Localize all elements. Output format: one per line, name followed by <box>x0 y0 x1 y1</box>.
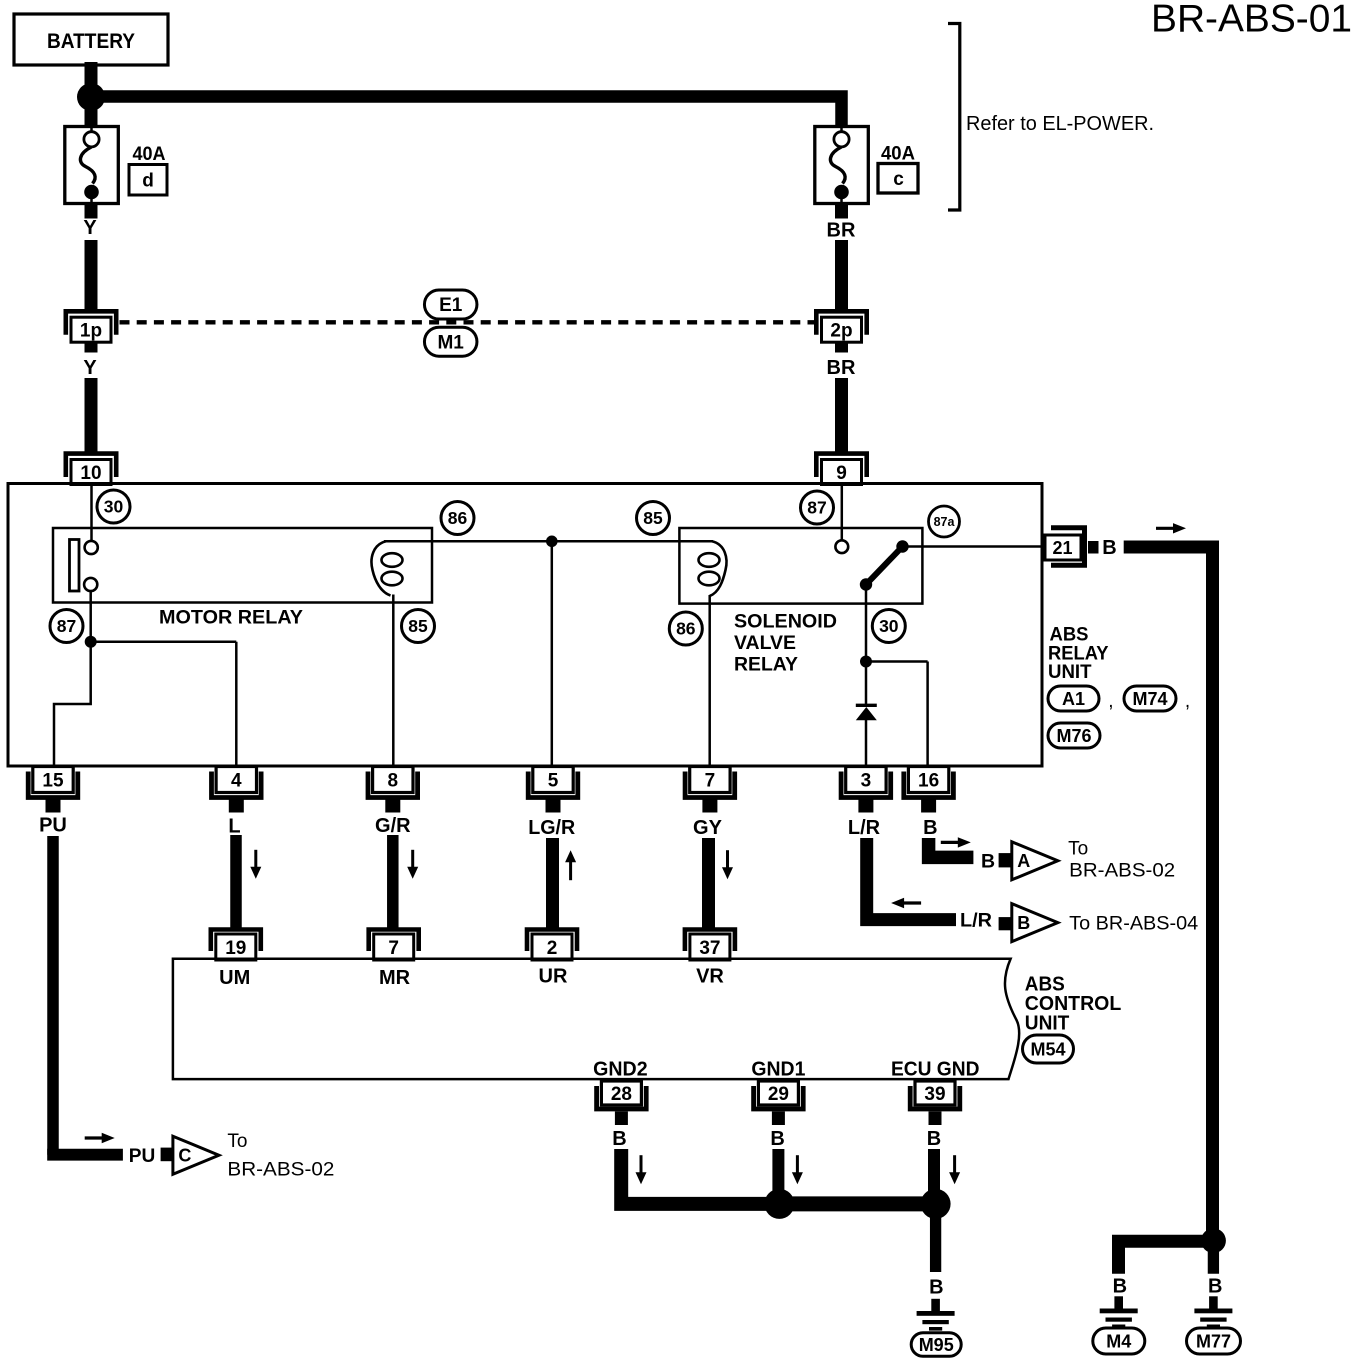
svg-text:,: , <box>1185 691 1190 712</box>
svg-text:To: To <box>1068 838 1088 859</box>
svg-text:30: 30 <box>879 616 899 636</box>
svg-text:Y: Y <box>83 357 97 379</box>
svg-text:B: B <box>612 1128 626 1150</box>
svg-text:10: 10 <box>80 463 101 484</box>
svg-text:3: 3 <box>861 771 872 792</box>
svg-text:BR: BR <box>827 220 856 242</box>
svg-text:7: 7 <box>388 938 399 959</box>
svg-text:BR-ABS-02: BR-ABS-02 <box>227 1159 334 1180</box>
svg-text:87: 87 <box>57 616 76 636</box>
svg-text:MR: MR <box>379 967 411 989</box>
svg-text:8: 8 <box>388 771 399 792</box>
svg-text:15: 15 <box>42 771 64 792</box>
svg-text:A: A <box>1017 851 1030 871</box>
svg-text:B: B <box>927 1128 941 1150</box>
svg-text:VALVE: VALVE <box>734 632 796 654</box>
svg-text:PU: PU <box>129 1145 156 1167</box>
svg-text:To: To <box>227 1131 247 1152</box>
svg-text:2: 2 <box>547 938 558 959</box>
svg-text:ECU GND: ECU GND <box>891 1058 980 1080</box>
svg-text:,: , <box>1108 691 1113 712</box>
svg-text:M74: M74 <box>1132 689 1167 709</box>
svg-text:21: 21 <box>1052 538 1072 558</box>
svg-text:BATTERY: BATTERY <box>47 29 135 53</box>
svg-text:UNIT: UNIT <box>1025 1013 1070 1035</box>
svg-text:B: B <box>1102 537 1116 559</box>
svg-text:GND1: GND1 <box>751 1058 805 1080</box>
svg-text:L/R: L/R <box>960 910 992 932</box>
svg-text:c: c <box>893 169 904 190</box>
svg-text:16: 16 <box>918 771 939 792</box>
svg-text:M76: M76 <box>1056 726 1091 746</box>
svg-text:87a: 87a <box>934 515 956 529</box>
svg-text:39: 39 <box>924 1084 945 1105</box>
svg-text:86: 86 <box>448 508 468 528</box>
svg-text:BR-ABS-01: BR-ABS-01 <box>1151 0 1352 41</box>
svg-text:B: B <box>929 1277 943 1299</box>
svg-text:Y: Y <box>83 217 97 239</box>
svg-text:29: 29 <box>768 1084 789 1105</box>
svg-text:B: B <box>1017 913 1030 933</box>
svg-text:86: 86 <box>676 619 696 639</box>
svg-text:85: 85 <box>408 616 428 636</box>
svg-text:UNIT: UNIT <box>1048 661 1092 683</box>
svg-text:UR: UR <box>539 966 568 988</box>
svg-text:BR-ABS-02: BR-ABS-02 <box>1069 860 1175 881</box>
svg-text:A1: A1 <box>1062 689 1085 709</box>
svg-text:85: 85 <box>643 508 663 528</box>
svg-text:BR: BR <box>827 357 856 379</box>
svg-text:B: B <box>1113 1276 1127 1298</box>
svg-text:5: 5 <box>548 771 559 792</box>
svg-text:LG/R: LG/R <box>528 817 576 839</box>
svg-text:L: L <box>228 816 240 838</box>
svg-text:M54: M54 <box>1030 1039 1065 1059</box>
svg-text:19: 19 <box>225 938 246 959</box>
svg-text:d: d <box>142 171 154 192</box>
svg-text:2p: 2p <box>830 321 852 342</box>
svg-text:G/R: G/R <box>375 815 411 837</box>
svg-text:RELAY: RELAY <box>734 654 798 676</box>
svg-text:M95: M95 <box>919 1335 954 1355</box>
svg-text:87: 87 <box>807 498 826 518</box>
svg-text:4: 4 <box>231 771 242 792</box>
svg-text:E1: E1 <box>439 295 463 316</box>
svg-text:1p: 1p <box>80 321 102 342</box>
svg-text:37: 37 <box>699 938 720 959</box>
svg-text:L/R: L/R <box>848 817 881 839</box>
svg-text:9: 9 <box>836 463 847 484</box>
svg-text:B: B <box>981 850 995 872</box>
svg-text:SOLENOID: SOLENOID <box>734 611 837 633</box>
svg-text:B: B <box>770 1128 784 1150</box>
svg-text:40A: 40A <box>881 143 915 165</box>
svg-text:To BR-ABS-04: To BR-ABS-04 <box>1069 913 1198 934</box>
svg-text:GND2: GND2 <box>593 1058 648 1080</box>
svg-text:VR: VR <box>696 966 724 988</box>
svg-text:M1: M1 <box>437 332 464 353</box>
svg-text:30: 30 <box>104 497 124 517</box>
svg-text:MOTOR RELAY: MOTOR RELAY <box>159 607 303 629</box>
svg-text:M4: M4 <box>1106 1331 1131 1351</box>
svg-text:UM: UM <box>219 967 250 989</box>
svg-text:GY: GY <box>693 817 723 839</box>
svg-text:B: B <box>1208 1276 1222 1298</box>
svg-text:40A: 40A <box>133 143 166 165</box>
svg-text:PU: PU <box>39 815 67 837</box>
svg-text:M77: M77 <box>1196 1331 1231 1351</box>
svg-text:7: 7 <box>705 771 716 792</box>
svg-text:28: 28 <box>611 1084 632 1105</box>
svg-text:Refer to EL-POWER.: Refer to EL-POWER. <box>966 113 1154 135</box>
svg-text:B: B <box>923 817 937 839</box>
svg-text:C: C <box>178 1146 191 1166</box>
